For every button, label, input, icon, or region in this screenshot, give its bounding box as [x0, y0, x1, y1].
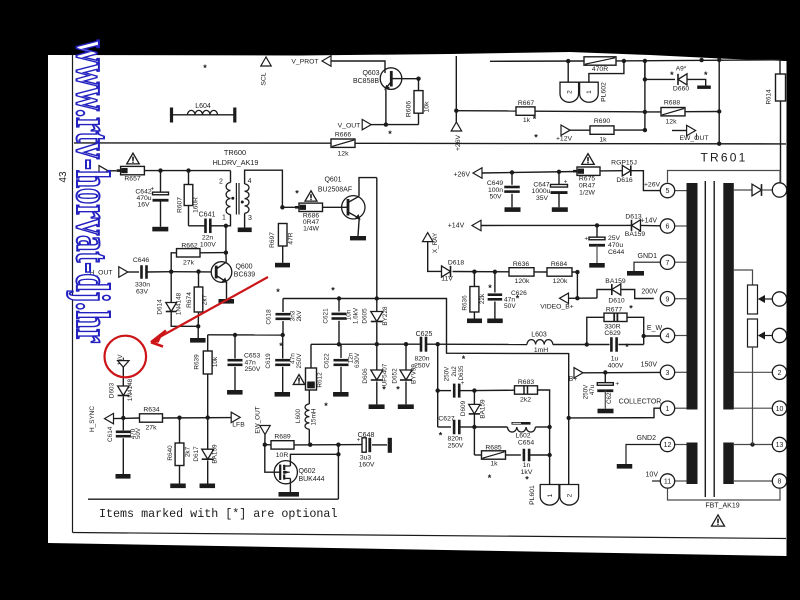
svg-text:11: 11	[664, 479, 671, 486]
red arrow	[157, 277, 268, 339]
resistor R666 12k	[331, 139, 355, 147]
svg-text:R684: R684	[551, 261, 567, 268]
svg-text:BC858B: BC858B	[353, 78, 379, 85]
capacitor C646 330n 63V	[128, 271, 139, 273]
capacitor C618 3n3 2kV	[282, 299, 284, 313]
white schematic page	[48, 52, 787, 556]
svg-text:160R: 160R	[193, 197, 200, 213]
svg-text:35V: 35V	[536, 195, 549, 202]
resistor 470R	[584, 57, 616, 65]
svg-text:120k: 120k	[515, 278, 530, 285]
resistor R639 10k	[203, 351, 212, 374]
svg-text:BY228: BY228	[382, 306, 389, 326]
wire Q603 emitter to V_OUT	[385, 90, 387, 125]
svg-text:C621: C621	[323, 308, 330, 324]
resistor R657 fusible	[121, 166, 145, 174]
svg-text:C646: C646	[133, 257, 149, 264]
warning triangle FBT	[712, 515, 725, 526]
svg-text:Q601: Q601	[324, 177, 341, 184]
wire PL602 pin1	[589, 61, 624, 82]
svg-text:R614: R614	[766, 89, 773, 105]
svg-text:R688: R688	[664, 100, 680, 107]
svg-text:+14V: +14V	[448, 223, 465, 230]
svg-text:11V: 11V	[441, 276, 453, 283]
svg-text:250V: 250V	[296, 353, 303, 369]
wire base rail Q600	[171, 271, 211, 273]
svg-text:TR601: TR601	[700, 151, 747, 165]
svg-text:+: +	[615, 381, 619, 388]
svg-text:2: 2	[567, 90, 574, 94]
svg-text:EW_OUT: EW_OUT	[679, 135, 708, 142]
svg-text:12k: 12k	[666, 119, 678, 126]
diode D614 1N4148	[170, 272, 172, 302]
wire E_W to pin4	[644, 335, 661, 337]
svg-text:2k7: 2k7	[185, 446, 192, 457]
svg-text:GND2: GND2	[637, 435, 657, 442]
wire Q602 gate	[265, 445, 274, 473]
wire C635 node rail	[437, 344, 439, 427]
wire long horizontal rail	[74, 142, 331, 144]
capacitor C626 47n 50V	[494, 272, 496, 293]
svg-text:COLLECTOR: COLLECTOR	[619, 399, 662, 406]
svg-text:R657: R657	[124, 176, 140, 183]
wire EW top rail	[376, 178, 378, 299]
svg-text:BC639: BC639	[234, 271, 256, 278]
svg-text:1k: 1k	[523, 117, 531, 124]
wire Q600 collector	[225, 253, 227, 263]
svg-text:V_PROT: V_PROT	[291, 59, 318, 66]
svg-text:R639: R639	[194, 354, 201, 370]
wire Q602 drain	[290, 454, 338, 461]
wire top rail right drop to R614	[779, 60, 781, 74]
svg-text:D617: D617	[193, 446, 200, 462]
wire to PL601 pin1	[549, 427, 551, 485]
svg-text:*: *	[629, 304, 633, 314]
red highlight circle	[105, 336, 147, 378]
wire X_RAY to D618	[428, 242, 441, 272]
wire R684 to video node	[572, 272, 577, 298]
svg-text:1N4148: 1N4148	[176, 292, 183, 315]
node +26V left arrow	[473, 168, 482, 178]
wire Q601 collector to EW rail	[359, 178, 377, 197]
svg-text:*: *	[396, 385, 400, 395]
TR601 focus pots	[734, 270, 753, 285]
diode D660	[644, 61, 646, 80]
svg-text:630V: 630V	[354, 352, 361, 368]
svg-text:9: 9	[666, 296, 670, 303]
svg-text:*: *	[516, 294, 520, 304]
node B+ arrow	[574, 368, 583, 378]
svg-text:+: +	[461, 381, 465, 387]
svg-text:*: *	[704, 70, 708, 80]
svg-text:*: *	[203, 63, 207, 73]
svg-text:D605: D605	[361, 308, 368, 324]
capacitor C647 1000u 35V	[558, 172, 560, 185]
node LFB	[231, 412, 240, 422]
diode D610 BA159	[577, 297, 597, 299]
node EW_OUT top	[672, 130, 687, 132]
node +12V feed	[561, 125, 570, 135]
wire left EW rail y335	[208, 334, 283, 336]
svg-text:Q602: Q602	[298, 468, 315, 475]
svg-text:R674: R674	[186, 292, 193, 308]
wire line B EW bottom rail	[311, 343, 421, 345]
transistor Q602 BUK444 mosfet	[274, 461, 297, 484]
node H-drive input arrow	[99, 166, 108, 176]
resistor R685 1k	[473, 427, 475, 455]
resistor R697 47R	[278, 224, 287, 247]
svg-text:BU2508AF: BU2508AF	[318, 187, 352, 194]
svg-text:R636: R636	[461, 295, 468, 311]
capacitor C649 100n 50V	[511, 172, 513, 184]
svg-text:10k: 10k	[212, 356, 219, 367]
TR601 shield frame	[668, 171, 781, 184]
svg-text:3: 3	[666, 370, 670, 377]
wire R657 to TR600	[144, 170, 230, 172]
resistor R667 1k	[516, 107, 535, 115]
svg-text:HLDRV_AK19: HLDRV_AK19	[213, 158, 259, 167]
node X_RAY	[422, 233, 432, 242]
svg-text:*: *	[276, 287, 280, 297]
svg-text:D606: D606	[362, 368, 369, 384]
svg-text:L604: L604	[195, 103, 211, 110]
wire C622 column	[340, 344, 342, 358]
svg-text:BUK444: BUK444	[298, 476, 324, 483]
wire Q603 collector	[402, 78, 419, 80]
svg-text:10V: 10V	[646, 472, 659, 479]
wire line A B+ rail	[283, 299, 569, 485]
svg-text:TR600: TR600	[224, 148, 246, 157]
inductor L603 1mH	[527, 340, 536, 345]
svg-text:C623: C623	[606, 389, 613, 404]
svg-text:1: 1	[666, 406, 670, 413]
svg-text:50V: 50V	[489, 194, 502, 201]
svg-text:BA159: BA159	[212, 444, 219, 464]
diode D617 BA159	[207, 418, 209, 449]
TR601 bottom loop	[668, 488, 781, 500]
node +26V feed	[451, 122, 461, 131]
node +14V rail	[472, 220, 481, 230]
svg-text:50V: 50V	[135, 427, 142, 439]
svg-text:2k2: 2k2	[520, 397, 531, 404]
svg-text:63V: 63V	[136, 288, 149, 295]
capacitor C654 1n 1kV	[506, 454, 521, 456]
svg-text:D614: D614	[157, 299, 164, 315]
svg-text:C641: C641	[199, 212, 216, 219]
wire TR600 secondary bottom to ground	[244, 213, 246, 227]
svg-text:V_OUT: V_OUT	[338, 122, 361, 129]
svg-text:UF5407: UF5407	[382, 363, 389, 386]
svg-text:C629: C629	[604, 330, 620, 337]
resistor R675 fusible 0R47 1/2W	[577, 167, 600, 175]
svg-text:10R: 10R	[276, 452, 289, 459]
svg-text:+: +	[150, 186, 154, 193]
svg-text:12: 12	[664, 442, 672, 449]
wire 11V rail	[453, 271, 509, 273]
svg-text:*: *	[488, 283, 492, 293]
capacitor C621 10n 1.6kV	[338, 299, 340, 312]
svg-text:C627: C627	[438, 415, 454, 422]
wire bottom rail	[88, 498, 338, 500]
svg-text:2k7: 2k7	[201, 294, 208, 305]
svg-text:+: +	[564, 179, 568, 185]
svg-text:www.rtv-horvat-dj.hr: www.rtv-horvat-dj.hr	[66, 40, 120, 343]
svg-text:3: 3	[248, 215, 252, 222]
svg-text:R612: R612	[317, 372, 324, 388]
svg-text:*: *	[670, 70, 674, 80]
TR601 pin circles left	[675, 190, 688, 192]
diode D603 1N4148	[118, 386, 129, 396]
svg-text:400V: 400V	[608, 362, 624, 369]
ground R697	[275, 263, 290, 268]
wire C641 node down	[225, 226, 227, 253]
svg-text:*: *	[295, 189, 299, 199]
svg-text:4: 4	[666, 333, 670, 340]
TR601 core bars	[687, 183, 698, 410]
svg-text:200V: 200V	[641, 289, 658, 296]
svg-text:15mH: 15mH	[311, 408, 318, 425]
capacitor C653 47n 250V	[234, 335, 236, 359]
svg-text:2kV: 2kV	[296, 310, 303, 322]
svg-text:R689: R689	[274, 434, 290, 441]
svg-text:+: +	[584, 235, 588, 242]
resistor R662 27k	[171, 253, 176, 272]
svg-text:*: *	[525, 475, 529, 485]
svg-text:+26V: +26V	[644, 182, 661, 189]
svg-text:10: 10	[776, 406, 784, 413]
svg-text:22k: 22k	[479, 293, 486, 304]
svg-text:R640: R640	[167, 445, 174, 461]
resistor R635 vertical	[473, 272, 475, 287]
svg-text:R662: R662	[181, 243, 197, 250]
diode D652 BYV99	[405, 344, 407, 369]
node VIDEO_B+	[560, 293, 569, 303]
svg-text:BA159: BA159	[605, 278, 626, 285]
svg-text:27k: 27k	[146, 425, 158, 432]
svg-text:+12V: +12V	[556, 136, 573, 143]
node SCL	[261, 57, 271, 66]
svg-text:D660: D660	[673, 86, 689, 93]
node top rail junctions	[566, 59, 570, 63]
svg-text:*: *	[462, 354, 466, 364]
resistor R683 2k2	[474, 389, 514, 391]
resistor R606 10k	[414, 91, 423, 114]
resistor R634 27k	[140, 414, 163, 422]
svg-text:100V: 100V	[200, 241, 216, 248]
svg-text:R697: R697	[269, 232, 276, 248]
svg-text:2: 2	[219, 179, 223, 186]
resistor R614	[776, 74, 786, 101]
svg-text:1: 1	[547, 493, 554, 497]
svg-text:D610: D610	[608, 298, 624, 305]
svg-text:FBT_AK19: FBT_AK19	[705, 503, 739, 510]
resistor R636 120k	[509, 268, 534, 276]
svg-text:1N4148: 1N4148	[127, 378, 134, 401]
svg-text:L603: L603	[531, 331, 547, 338]
svg-text:*: *	[279, 341, 283, 351]
svg-text:*: *	[439, 431, 443, 441]
capacitor C635 2u2 250V	[438, 390, 451, 392]
page frame bottom border	[73, 533, 787, 539]
diode D605 BY228	[376, 299, 378, 312]
svg-text:X_RAY: X_RAY	[432, 232, 439, 253]
diode D606 UF5407	[376, 344, 378, 369]
diode D613 BA159	[627, 224, 632, 226]
svg-text:R666: R666	[335, 132, 351, 139]
svg-text:BYV99: BYV99	[411, 364, 418, 384]
svg-text:C619: C619	[265, 353, 272, 369]
svg-text:E_W: E_W	[647, 325, 663, 332]
svg-text:1mH: 1mH	[534, 347, 548, 354]
svg-text:*: *	[625, 342, 629, 352]
svg-text:D635: D635	[458, 365, 465, 380]
svg-text:1/2W: 1/2W	[579, 189, 595, 196]
svg-text:*: *	[534, 133, 538, 143]
svg-text:1/4W: 1/4W	[303, 226, 319, 233]
svg-text:47u: 47u	[589, 384, 596, 395]
svg-text:47R: 47R	[287, 232, 294, 244]
page frame left border	[72, 55, 74, 533]
svg-text:L600: L600	[295, 408, 302, 423]
svg-text:+26V: +26V	[453, 172, 470, 179]
ground D614 R674 node	[197, 326, 199, 338]
wire drain rail down	[337, 445, 339, 500]
svg-text:EW_OUT: EW_OUT	[255, 406, 262, 433]
resistor R684 120k	[534, 271, 547, 273]
svg-text:C618: C618	[266, 309, 273, 325]
svg-text:1: 1	[222, 215, 226, 222]
resistor R690 1k	[570, 129, 590, 131]
svg-text:VIDEO_B+: VIDEO_B+	[540, 304, 573, 311]
svg-text:C622: C622	[324, 353, 331, 369]
svg-text:RGP15J: RGP15J	[611, 160, 637, 167]
svg-text:R677: R677	[606, 306, 622, 313]
capacitor C642 470u 16V	[160, 171, 162, 194]
svg-text:6: 6	[666, 224, 670, 231]
transistor Q600 BC639	[211, 262, 232, 283]
transistor Q603	[380, 68, 402, 90]
capacitor C641 22n 100V	[189, 225, 205, 227]
resistor R688 12k	[645, 111, 661, 113]
svg-text:C644: C644	[608, 249, 624, 256]
svg-text:C625: C625	[416, 331, 433, 338]
wire Q601 emitter bar	[358, 218, 359, 236]
svg-text:250V: 250V	[245, 366, 261, 373]
svg-text:*: *	[533, 114, 537, 124]
wire R667 rail	[456, 110, 516, 112]
inductor L600 15mH	[308, 390, 310, 404]
wire collector rail	[569, 408, 661, 418]
wire top rail	[490, 60, 584, 62]
svg-text:12k: 12k	[338, 151, 350, 158]
svg-text:2: 2	[778, 370, 782, 377]
svg-text:Items marked with [*] are opti: Items marked with [*] are optional	[99, 507, 337, 521]
svg-text:50V: 50V	[504, 303, 516, 310]
svg-text:D618: D618	[448, 259, 464, 266]
svg-text:Q603: Q603	[362, 70, 379, 77]
capacitor C627 820n 250V	[438, 426, 451, 428]
svg-text:470R: 470R	[592, 66, 608, 73]
svg-text:2u2: 2u2	[451, 366, 458, 377]
svg-text:*: *	[331, 286, 335, 296]
resistor R612 fusible vertical	[310, 344, 312, 368]
svg-text:5: 5	[666, 188, 670, 195]
svg-text:13: 13	[776, 442, 784, 449]
svg-text:Q600: Q600	[235, 264, 252, 271]
svg-text:D603: D603	[108, 382, 115, 398]
resistor R689 10R	[265, 444, 271, 446]
svg-text:120k: 120k	[553, 278, 568, 285]
svg-text:+: +	[357, 437, 361, 443]
inductor L602 with core	[474, 426, 507, 428]
svg-text:*: *	[388, 129, 392, 139]
resistor R686 fusible 0R47	[282, 206, 299, 208]
resistor R674 2k7	[198, 272, 200, 287]
svg-text:160V: 160V	[359, 461, 375, 468]
svg-text:BA159: BA159	[479, 399, 486, 419]
capacitor C622 12n 630V	[334, 359, 349, 362]
svg-text:C614: C614	[107, 426, 114, 442]
transistor Q601 BU2508AF	[342, 196, 365, 219]
svg-text:R685: R685	[485, 445, 501, 452]
svg-text:R667: R667	[518, 100, 534, 107]
svg-text:4: 4	[248, 178, 252, 185]
svg-text:8: 8	[778, 479, 782, 486]
wire TR600 primary bottom	[226, 215, 231, 226]
svg-text:R607: R607	[176, 197, 183, 213]
svg-text:*: *	[324, 401, 328, 411]
wire 26V rail vertical	[455, 56, 457, 122]
capacitor C644 470u 25V	[596, 225, 598, 238]
wire PL602 pin2	[567, 61, 569, 82]
svg-text:250V: 250V	[443, 366, 450, 381]
svg-text:*: *	[488, 473, 492, 483]
svg-text:H_SYNC: H_SYNC	[89, 406, 96, 432]
inductor L604	[170, 108, 173, 123]
diode D609 BA159	[473, 391, 475, 404]
svg-text:R683: R683	[518, 379, 534, 386]
svg-text:250V: 250V	[448, 442, 464, 449]
capacitor C629 1u 400V	[610, 337, 613, 352]
svg-text:+14V: +14V	[641, 218, 658, 225]
svg-text:A9*: A9*	[676, 66, 687, 73]
svg-text:R690: R690	[594, 118, 610, 125]
svg-text:D613: D613	[625, 213, 641, 220]
svg-text:27k: 27k	[183, 260, 195, 267]
svg-text:D652: D652	[392, 368, 399, 384]
wire Q600 emitter bar	[226, 282, 228, 299]
svg-text:BA159: BA159	[625, 231, 646, 238]
wire TR600 secondary top to R686	[245, 170, 283, 207]
svg-text:R606: R606	[406, 101, 413, 117]
svg-text:150V: 150V	[641, 362, 658, 369]
wire 26V rail to R675	[482, 172, 578, 174]
svg-text:PL601: PL601	[529, 485, 536, 505]
wire L600 to rail	[308, 444, 311, 446]
svg-text:D609: D609	[460, 400, 467, 416]
connector PL601	[540, 485, 559, 506]
svg-text:16V: 16V	[137, 202, 150, 209]
wire right rail vertical	[644, 61, 646, 130]
svg-text:D616: D616	[616, 177, 632, 184]
diode D618 11V	[442, 266, 451, 277]
svg-text:1k: 1k	[490, 461, 498, 468]
svg-text:7: 7	[666, 260, 670, 267]
svg-text:LFB: LFB	[232, 421, 245, 428]
svg-text:2: 2	[567, 493, 574, 497]
capacitor C614 470p 50V	[122, 418, 124, 430]
diode TR601 heater	[734, 189, 752, 191]
